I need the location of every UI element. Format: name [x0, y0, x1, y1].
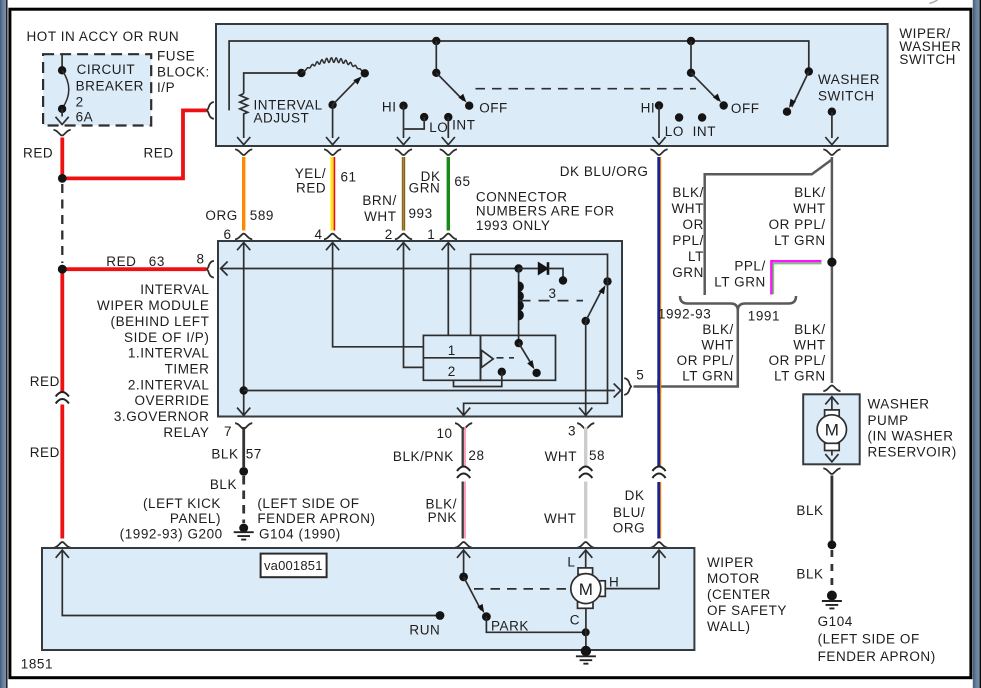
svg-text:LT: LT — [688, 249, 704, 264]
connector row above module — [235, 234, 252, 240]
park switch — [457, 550, 491, 621]
svg-text:WALL): WALL) — [707, 619, 751, 634]
wire BLK/PNK 28 — [462, 427, 464, 539]
svg-text:BRN/: BRN/ — [362, 193, 396, 208]
svg-text:ORG: ORG — [205, 208, 237, 223]
module exit arrows — [237, 408, 250, 416]
wire BLK from pump — [831, 476, 834, 541]
wire BLK 57 — [242, 427, 245, 467]
svg-text:PARK: PARK — [491, 618, 529, 633]
svg-text:va001851: va001851 — [264, 558, 323, 573]
svg-text:DK: DK — [625, 488, 645, 503]
svg-text:FENDER APRON): FENDER APRON) — [818, 649, 936, 664]
svg-text:LT GRN: LT GRN — [774, 233, 826, 248]
svg-text:(LEFT KICK: (LEFT KICK — [143, 496, 221, 511]
wire DK BLU/ORG overdraw at crossing — [657, 380, 660, 393]
mechanical link dashed — [474, 588, 566, 590]
svg-text:FUSE: FUSE — [157, 49, 195, 64]
svg-text:(BEHIND LEFT: (BEHIND LEFT — [111, 314, 210, 329]
svg-text:WHT: WHT — [793, 201, 825, 216]
svg-text:RED: RED — [144, 145, 174, 160]
svg-text:8: 8 — [197, 252, 205, 267]
svg-text:PUMP: PUMP — [868, 413, 909, 428]
svg-text:RUN: RUN — [409, 622, 440, 637]
svg-text:6A: 6A — [76, 110, 94, 125]
svg-text:(LEFT SIDE OF: (LEFT SIDE OF — [818, 631, 920, 646]
fuse block I/P (dashed box) — [43, 54, 151, 125]
connector row below module — [235, 423, 252, 429]
wire relay NO loop — [464, 254, 608, 414]
relay coil — [518, 269, 520, 344]
svg-text:RED: RED — [23, 145, 53, 160]
wire BRN/WHT 993 — [402, 157, 405, 231]
svg-text:3.GOVERNOR: 3.GOVERNOR — [114, 409, 210, 424]
svg-text:LT GRN: LT GRN — [774, 369, 826, 384]
svg-text:RED: RED — [106, 254, 136, 269]
svg-text:L: L — [567, 554, 575, 569]
wire BLK dashed to G200 — [242, 476, 245, 523]
svg-text:OFF: OFF — [731, 101, 760, 116]
svg-text:OR PPL/: OR PPL/ — [677, 353, 734, 368]
wire WHT 58 — [584, 427, 587, 539]
switch 1 INT contact — [442, 113, 455, 145]
svg-text:LT GRN: LT GRN — [714, 274, 766, 289]
svg-text:BREAKER: BREAKER — [76, 79, 144, 94]
svg-text:NUMBERS ARE FOR: NUMBERS ARE FOR — [476, 204, 615, 219]
module pin 4 internal wire — [326, 243, 339, 251]
comparator triangle — [481, 350, 493, 367]
svg-text:DK BLU/ORG: DK BLU/ORG — [560, 164, 649, 179]
svg-text:BLK/: BLK/ — [794, 185, 825, 200]
svg-text:INT: INT — [693, 124, 716, 139]
dashes to contact — [497, 357, 515, 359]
svg-text:57: 57 — [246, 447, 262, 462]
svg-text:10: 10 — [436, 426, 452, 441]
module output contact arm — [515, 339, 541, 377]
junction — [828, 540, 837, 549]
wire RED to wiper/washer switch — [62, 110, 206, 178]
svg-text:OR: OR — [683, 217, 704, 232]
connector below washer pump — [823, 468, 840, 474]
diode — [519, 262, 568, 284]
wiper/washer switch box — [216, 24, 888, 146]
junction on washer wire — [827, 258, 836, 267]
va001851 badge — [261, 554, 327, 578]
svg-text:I/P: I/P — [157, 80, 175, 95]
motor ground — [581, 646, 591, 656]
svg-text:1993 ONLY: 1993 ONLY — [476, 218, 551, 233]
wiper switch 2 — [687, 41, 728, 110]
resistor interval adjust — [240, 94, 248, 139]
connector bracket + entry arrow at switch — [207, 102, 214, 119]
junction on bus — [687, 37, 695, 45]
svg-text:BLU/: BLU/ — [613, 505, 645, 520]
svg-text:PNK: PNK — [428, 510, 457, 525]
svg-text:BLK/: BLK/ — [702, 322, 733, 337]
svg-text:G104: G104 — [818, 614, 853, 629]
svg-text:61: 61 — [341, 170, 357, 185]
svg-text:SIDE OF I/P): SIDE OF I/P) — [124, 330, 209, 345]
wire PPL/LT GRN (1991) — [772, 261, 822, 294]
svg-text:BLK: BLK — [796, 566, 823, 581]
svg-text:OF SAFETY: OF SAFETY — [707, 603, 787, 618]
svg-text:OVERRIDE: OVERRIDE — [134, 393, 209, 408]
svg-text:589: 589 — [250, 208, 274, 223]
svg-text:CONNECTOR: CONNECTOR — [476, 189, 568, 204]
svg-text:HI: HI — [641, 101, 656, 116]
ground G200 — [239, 524, 248, 533]
svg-text:6: 6 — [224, 227, 232, 242]
svg-text:RED: RED — [30, 445, 60, 460]
svg-text:WIPER: WIPER — [707, 555, 754, 570]
wire PARK contact — [486, 617, 585, 633]
module pin 8 internal wire — [221, 262, 228, 276]
switch 1 HI contact — [397, 102, 410, 145]
svg-text:INT: INT — [452, 118, 475, 133]
wire RED from fuse block — [60, 138, 64, 178]
svg-text:2: 2 — [448, 364, 456, 379]
svg-text:SWITCH: SWITCH — [899, 52, 956, 67]
year brace — [680, 296, 796, 311]
svg-text:RELAY: RELAY — [163, 425, 209, 440]
svg-text:LO: LO — [429, 120, 448, 135]
washer pump box — [803, 394, 860, 464]
potentiometer element — [297, 69, 305, 77]
junction — [239, 467, 248, 476]
svg-text:1991: 1991 — [748, 308, 780, 323]
svg-text:(1992-93) G200: (1992-93) G200 — [120, 527, 223, 542]
circuit breaker 2 6A — [56, 55, 69, 125]
svg-text:G104 (1990): G104 (1990) — [259, 527, 341, 542]
svg-text:58: 58 — [589, 448, 605, 463]
svg-text:TIMER: TIMER — [165, 361, 210, 376]
wire RED 63 to pin 8 — [62, 267, 206, 271]
junction dot — [58, 174, 67, 183]
svg-text:C: C — [570, 612, 580, 627]
wire brace to connector 5 — [634, 311, 738, 387]
svg-text:CIRCUIT: CIRCUIT — [77, 62, 136, 77]
wiper motor M — [571, 568, 606, 608]
svg-text:GRN: GRN — [409, 181, 441, 196]
svg-text:2: 2 — [385, 227, 393, 242]
switch 1 LO contact — [404, 113, 428, 129]
svg-text:BLK: BLK — [210, 477, 237, 492]
svg-text:GRN: GRN — [672, 265, 704, 280]
wire: stub to interval adjust — [244, 73, 299, 94]
terminal H wire — [605, 550, 665, 589]
svg-text:H: H — [609, 574, 619, 589]
svg-text:(CENTER: (CENTER — [707, 587, 771, 602]
junction diode/coil — [514, 264, 522, 272]
svg-text:1: 1 — [427, 227, 435, 242]
relay link dashed — [520, 300, 584, 302]
svg-text:1: 1 — [448, 343, 456, 358]
svg-text:3: 3 — [568, 423, 576, 438]
svg-text:LO: LO — [665, 124, 684, 139]
wire: switch feed bus — [229, 41, 809, 110]
wire YEL/RED 61 — [331, 157, 334, 231]
wire output to bus — [454, 368, 506, 387]
svg-text:LT GRN: LT GRN — [682, 369, 734, 384]
svg-text:OR PPL/: OR PPL/ — [769, 217, 826, 232]
washer switch — [783, 67, 813, 116]
junction on C wire — [582, 628, 590, 636]
svg-text:OFF: OFF — [479, 101, 508, 116]
svg-text:WASHER: WASHER — [868, 397, 930, 412]
switch 2 HI contact — [652, 101, 665, 144]
module pin 6 internal wire — [237, 243, 250, 251]
governor relay box — [481, 335, 556, 380]
svg-text:(IN WASHER: (IN WASHER — [868, 429, 954, 444]
junction on bus — [432, 37, 440, 45]
terminal L wire — [579, 550, 592, 568]
svg-text:WHT: WHT — [672, 201, 704, 216]
connector row below switch box — [235, 149, 252, 155]
svg-text:BLK/PNK: BLK/PNK — [393, 449, 454, 464]
wiper switch 1 — [432, 41, 473, 110]
wire break — [652, 467, 665, 479]
svg-text:RESERVOIR): RESERVOIR) — [868, 445, 957, 460]
svg-text:993: 993 — [409, 206, 433, 221]
svg-text:PANEL): PANEL) — [170, 511, 221, 526]
svg-text:HOT IN ACCY OR RUN: HOT IN ACCY OR RUN — [27, 29, 180, 44]
wire washer switch output (BLK/WHT or PPL/LT GRN) — [831, 157, 834, 383]
wire RED down to wiper motor — [60, 269, 64, 538]
svg-text:PPL/: PPL/ — [734, 258, 765, 273]
svg-text:1992-93: 1992-93 — [658, 306, 711, 321]
svg-text:INTERVAL: INTERVAL — [140, 282, 209, 297]
svg-text:SWITCH: SWITCH — [818, 89, 875, 104]
svg-text:ORG: ORG — [613, 520, 645, 535]
svg-text:WHT: WHT — [545, 449, 577, 464]
svg-text:BLOCK:: BLOCK: — [157, 65, 210, 80]
svg-text:28: 28 — [468, 448, 484, 463]
wire ORG 589 — [242, 157, 245, 231]
module pin 2 internal wire — [397, 243, 410, 251]
wire RUN feed — [56, 550, 445, 620]
connector 5 bracket — [624, 378, 631, 395]
svg-text:WHT: WHT — [793, 338, 825, 353]
interval wiper module box — [218, 241, 622, 417]
svg-text:2.INTERVAL: 2.INTERVAL — [128, 377, 210, 392]
washer switch output contact — [825, 108, 838, 145]
switch 2 LO contact — [675, 113, 683, 121]
svg-text:PPL/: PPL/ — [672, 233, 703, 248]
svg-text:WHT: WHT — [701, 338, 733, 353]
svg-text:RED: RED — [30, 374, 60, 389]
svg-text:BLK/: BLK/ — [672, 185, 703, 200]
washer pump motor M — [817, 397, 846, 462]
wire relay common to pin 3 — [585, 321, 587, 415]
svg-text:2: 2 — [76, 94, 84, 109]
terminal C wire to ground — [585, 608, 587, 649]
svg-text:WASHER: WASHER — [818, 72, 880, 87]
switch 2 INT contact — [698, 113, 706, 121]
svg-text:1.INTERVAL: 1.INTERVAL — [128, 346, 210, 361]
wire BLK dashed to G104 — [831, 550, 834, 589]
svg-text:3: 3 — [549, 286, 557, 301]
svg-text:63: 63 — [149, 254, 165, 269]
ground G104 — [827, 591, 837, 601]
interval timer box 1 — [423, 335, 480, 380]
relay contact arm — [582, 277, 612, 325]
wiper motor box — [42, 548, 694, 650]
wire pin7/pin5 bus — [240, 386, 248, 394]
svg-text:BLK: BLK — [211, 447, 238, 462]
svg-text:YEL/: YEL/ — [295, 166, 326, 181]
svg-text:5: 5 — [636, 368, 644, 383]
svg-text:M: M — [825, 421, 839, 440]
svg-text:(LEFT SIDE OF: (LEFT SIDE OF — [257, 496, 359, 511]
pot wiper arm — [326, 74, 364, 145]
svg-text:MOTOR: MOTOR — [707, 571, 760, 586]
svg-text:65: 65 — [454, 174, 470, 189]
module pin 1 internal wire — [442, 243, 455, 251]
svg-text:7: 7 — [224, 424, 232, 439]
svg-text:OR PPL/: OR PPL/ — [769, 353, 826, 368]
svg-text:WIPER MODULE: WIPER MODULE — [97, 298, 209, 313]
svg-text:WHT: WHT — [364, 209, 396, 224]
svg-text:BLK: BLK — [796, 503, 823, 518]
mechanical link dashed — [476, 88, 696, 90]
wire branch 1992-93 — [705, 160, 832, 296]
connector below fuse block — [54, 130, 71, 136]
svg-text:HI: HI — [382, 100, 397, 115]
connector above washer pump — [823, 386, 840, 392]
svg-text:ADJUST: ADJUST — [254, 111, 310, 126]
dashed wire segment (left) — [61, 184, 63, 263]
svg-text:RED: RED — [296, 181, 326, 196]
svg-text:BLK/: BLK/ — [794, 322, 825, 337]
wire DK BLU/ORG (switch to motor) — [657, 157, 660, 539]
svg-text:WHT: WHT — [544, 511, 576, 526]
svg-text:FENDER APRON): FENDER APRON) — [257, 511, 375, 526]
svg-text:1851: 1851 — [21, 656, 53, 671]
svg-text:M: M — [579, 580, 593, 599]
wire DK GRN 65 — [447, 157, 450, 231]
svg-text:4: 4 — [314, 227, 322, 242]
